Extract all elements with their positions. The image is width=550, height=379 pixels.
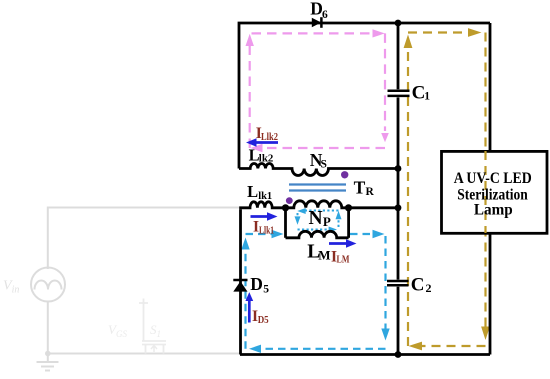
svg-text:Llk2: Llk2: [261, 132, 278, 143]
svg-text:S: S: [321, 158, 327, 170]
svg-text:lk1: lk1: [258, 190, 272, 202]
svg-text:C: C: [412, 83, 426, 104]
svg-text:6: 6: [322, 9, 328, 21]
svg-text:lk2: lk2: [259, 152, 274, 164]
svg-text:R: R: [366, 186, 375, 198]
svg-text:L: L: [247, 182, 258, 201]
svg-text:Llk1: Llk1: [259, 225, 274, 236]
svg-text:Lamp: Lamp: [474, 201, 513, 218]
svg-text:C: C: [411, 275, 425, 296]
svg-text:1: 1: [424, 91, 430, 103]
svg-text:N: N: [309, 208, 323, 229]
svg-text:D5: D5: [258, 315, 269, 326]
svg-text:5: 5: [263, 284, 269, 296]
svg-text:M: M: [318, 248, 330, 263]
svg-text:D: D: [250, 274, 263, 294]
svg-text:LM: LM: [337, 255, 350, 266]
svg-text:T: T: [354, 178, 366, 198]
svg-text:2: 2: [426, 281, 432, 295]
svg-text:A UV-C LED: A UV-C LED: [454, 170, 532, 187]
svg-text:P: P: [323, 214, 331, 229]
